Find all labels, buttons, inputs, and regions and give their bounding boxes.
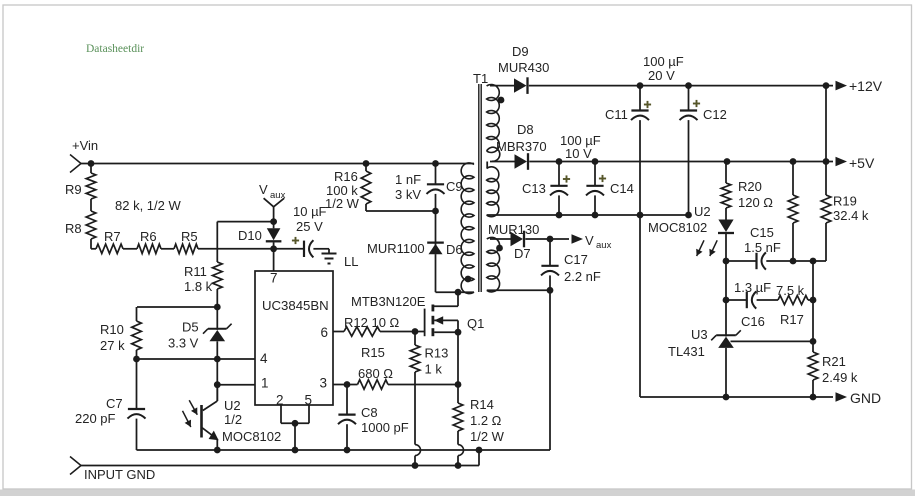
svg-text:R5: R5: [181, 229, 198, 244]
svg-text:82 k, 1/2 W: 82 k, 1/2 W: [115, 198, 181, 213]
svg-text:C11: C11: [605, 107, 628, 122]
svg-text:MUR1100: MUR1100: [367, 241, 425, 256]
svg-text:C9: C9: [446, 179, 463, 194]
svg-text:1 nF: 1 nF: [395, 172, 421, 187]
svg-text:100 µF: 100 µF: [643, 54, 684, 69]
svg-text:GND: GND: [850, 390, 881, 406]
svg-text:MUR430: MUR430: [498, 60, 549, 75]
svg-text:R12 10 Ω: R12 10 Ω: [344, 315, 400, 330]
svg-text:7.5 k: 7.5 k: [776, 283, 805, 298]
svg-text:R11: R11: [184, 264, 207, 279]
svg-text:2.2 nF: 2.2 nF: [564, 269, 601, 284]
svg-text:R13: R13: [425, 346, 449, 361]
svg-text:2.49 k: 2.49 k: [822, 370, 858, 385]
svg-text:D7: D7: [514, 246, 531, 261]
svg-text:7: 7: [270, 271, 278, 286]
svg-text:25 V: 25 V: [296, 219, 323, 234]
svg-text:C8: C8: [361, 405, 378, 420]
svg-text:R16: R16: [334, 169, 358, 184]
svg-text:UC3845BN: UC3845BN: [262, 298, 329, 313]
svg-text:680 Ω: 680 Ω: [358, 366, 393, 381]
svg-text:D8: D8: [517, 122, 534, 137]
svg-text:D6: D6: [446, 242, 463, 257]
svg-text:R15: R15: [361, 345, 385, 360]
svg-text:U2: U2: [224, 398, 241, 413]
svg-text:R21: R21: [822, 354, 846, 369]
svg-text:+5V: +5V: [849, 155, 875, 171]
svg-text:R17: R17: [780, 312, 804, 327]
svg-text:R19: R19: [833, 194, 857, 209]
svg-text:C13: C13: [522, 181, 546, 196]
svg-text:C14: C14: [610, 181, 634, 196]
svg-text:C7: C7: [106, 396, 123, 411]
svg-text:R10: R10: [100, 322, 124, 337]
svg-text:D9: D9: [512, 44, 529, 59]
svg-text:6: 6: [321, 325, 329, 340]
svg-text:1.8 k: 1.8 k: [184, 279, 213, 294]
svg-text:3 kV: 3 kV: [395, 187, 421, 202]
svg-text:R9: R9: [65, 182, 82, 197]
svg-text:V: V: [585, 233, 594, 248]
svg-text:1: 1: [261, 376, 269, 391]
svg-text:1/2 W: 1/2 W: [470, 429, 505, 444]
svg-text:1.2 Ω: 1.2 Ω: [470, 413, 502, 428]
svg-text:D10: D10: [238, 228, 262, 243]
svg-text:+Vin: +Vin: [72, 138, 98, 153]
svg-text:MOC8102: MOC8102: [222, 429, 281, 444]
svg-text:Q1: Q1: [467, 316, 484, 331]
svg-text:27 k: 27 k: [100, 338, 125, 353]
svg-text:120 Ω: 120 Ω: [738, 195, 773, 210]
svg-text:220 pF: 220 pF: [75, 411, 116, 426]
svg-text:D5: D5: [182, 320, 199, 335]
svg-text:1.5 nF: 1.5 nF: [744, 240, 781, 255]
svg-text:10 V: 10 V: [565, 146, 592, 161]
svg-text:C12: C12: [703, 107, 727, 122]
svg-text:1/2 W: 1/2 W: [325, 196, 360, 211]
svg-text:1.3 µF: 1.3 µF: [734, 280, 771, 295]
svg-text:V: V: [259, 182, 268, 197]
svg-text:MBR370: MBR370: [496, 139, 547, 154]
svg-text:10 µF: 10 µF: [293, 204, 327, 219]
svg-text:INPUT GND: INPUT GND: [84, 467, 155, 482]
svg-text:MUR130: MUR130: [488, 222, 539, 237]
svg-text:1/2: 1/2: [224, 412, 242, 427]
svg-text:32.4 k: 32.4 k: [833, 208, 869, 223]
svg-text:aux: aux: [596, 240, 612, 251]
svg-text:U2: U2: [694, 204, 711, 219]
svg-text:4: 4: [260, 351, 268, 366]
svg-text:TL431: TL431: [668, 344, 705, 359]
svg-text:U3: U3: [691, 327, 708, 342]
svg-text:2: 2: [276, 393, 284, 408]
svg-text:3: 3: [320, 376, 328, 391]
svg-text:MOC8102: MOC8102: [648, 220, 707, 235]
svg-text:C16: C16: [741, 314, 765, 329]
svg-text:+12V: +12V: [849, 78, 883, 94]
svg-text:Datasheetdir: Datasheetdir: [86, 43, 144, 55]
svg-text:1 k: 1 k: [425, 362, 443, 377]
svg-text:1000 pF: 1000 pF: [361, 420, 409, 435]
svg-text:3.3 V: 3.3 V: [168, 336, 199, 351]
svg-text:C15: C15: [750, 225, 774, 240]
svg-text:R8: R8: [65, 221, 82, 236]
svg-text:R6: R6: [140, 229, 157, 244]
svg-text:MTB3N120E: MTB3N120E: [351, 294, 426, 309]
svg-text:20 V: 20 V: [648, 68, 675, 83]
svg-text:T1: T1: [473, 71, 488, 86]
svg-text:LL: LL: [344, 254, 358, 269]
svg-text:R20: R20: [738, 179, 762, 194]
svg-text:R14: R14: [470, 397, 494, 412]
svg-text:C17: C17: [564, 252, 588, 267]
svg-text:R7: R7: [104, 229, 121, 244]
